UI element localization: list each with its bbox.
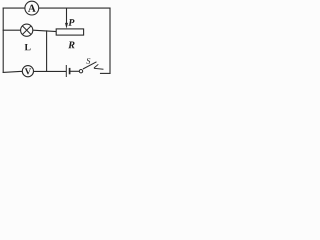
wire middle rail (lamp row): [3, 30, 56, 31]
rheostat label R: [68, 42, 74, 49]
switch S pivot: [79, 70, 82, 73]
wire top rail: [3, 7, 110, 9]
voltmeter label V: [25, 68, 31, 74]
background: [0, 0, 115, 81]
wire switch contact to right corner: [94, 67, 103, 70]
battery long plate: [65, 65, 67, 77]
wire bottom right corner foot: [101, 72, 111, 74]
wire bottom left (through voltmeter to battery): [3, 71, 66, 72]
rheostat slider label P: [68, 19, 74, 26]
switch label S: [86, 58, 90, 64]
wire left rail: [2, 8, 4, 72]
rheostat R body: [56, 29, 83, 35]
wire rheostat slider stem: [66, 8, 68, 24]
wire right rail: [109, 8, 111, 73]
voltmeter V circle: [22, 66, 33, 77]
wire battery to switch: [70, 70, 79, 72]
battery short thick plate: [69, 68, 71, 74]
switch fixed contact lead: [94, 64, 98, 68]
switch S blade: [83, 62, 97, 69]
lamp label L: [25, 44, 31, 50]
wire vertical junction to bottom: [46, 31, 48, 72]
ammeter A1 circle: [25, 1, 39, 15]
rheostat slider arrowhead: [65, 23, 68, 29]
lamp L cross: [23, 26, 31, 34]
lamp L circle: [21, 24, 33, 36]
ammeter A1 label A: [28, 5, 36, 12]
